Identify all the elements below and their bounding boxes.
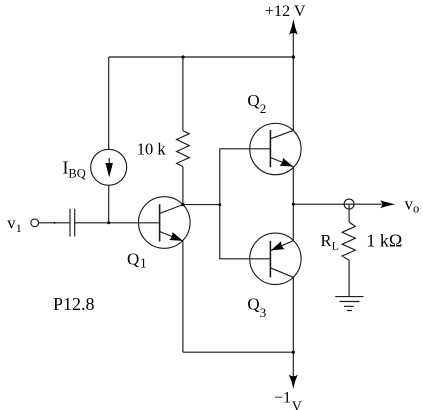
svg-text:1: 1 bbox=[16, 221, 22, 235]
svg-text:3: 3 bbox=[260, 305, 267, 320]
svg-text:1: 1 bbox=[140, 255, 147, 270]
svg-text:R: R bbox=[321, 231, 332, 250]
svg-text:L: L bbox=[332, 239, 339, 253]
svg-text:Q: Q bbox=[247, 91, 259, 110]
svg-text:1 kΩ: 1 kΩ bbox=[366, 230, 402, 250]
svg-text:P12.8: P12.8 bbox=[53, 294, 95, 314]
svg-text:BQ: BQ bbox=[68, 167, 85, 181]
svg-text:−1: −1 bbox=[274, 390, 291, 407]
svg-text:+12 V: +12 V bbox=[265, 1, 306, 20]
svg-text:10 k: 10 k bbox=[137, 139, 167, 158]
svg-text:V: V bbox=[292, 399, 302, 410]
svg-text:Q: Q bbox=[247, 295, 259, 314]
svg-text:2: 2 bbox=[260, 101, 267, 116]
svg-text:Q: Q bbox=[127, 250, 139, 269]
svg-text:o: o bbox=[413, 202, 419, 216]
